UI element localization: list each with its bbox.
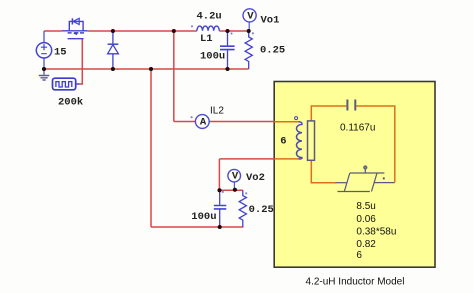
svg-text:Vo1: Vo1 bbox=[261, 14, 280, 26]
wire ammeter line y=121.5 bbox=[174, 121, 274, 123]
svg-text:0.38*58u: 0.38*58u bbox=[356, 226, 396, 237]
pulse source 200k bbox=[53, 78, 76, 90]
wire inductor-model return y=158.9 bbox=[219, 158, 274, 160]
capacitor 0.1167u (in box) bbox=[346, 100, 348, 111]
svg-text:A: A bbox=[200, 116, 207, 128]
saturable core (hysteresis symbol) bbox=[335, 169, 394, 191]
pulse source output stub bbox=[76, 83, 80, 85]
svg-text:4.2u: 4.2u bbox=[197, 10, 222, 22]
yellow subcircuit box bbox=[274, 82, 435, 268]
svg-text:L1: L1 bbox=[200, 33, 213, 45]
wire gate drive bbox=[79, 39, 82, 84]
svg-text:6: 6 bbox=[280, 135, 286, 147]
svg-text:0.25: 0.25 bbox=[249, 204, 274, 216]
resistor R2 0.25 (bottom) bbox=[239, 190, 246, 227]
wire ground-rail drop x=151 bbox=[150, 69, 152, 227]
svg-text:V: V bbox=[232, 171, 239, 183]
wire bottom rail y=69 bbox=[44, 68, 249, 70]
wire primary bottom (inside box) bbox=[274, 158, 298, 160]
probe Vo2 bbox=[228, 169, 241, 182]
svg-text:100u: 100u bbox=[191, 211, 216, 223]
svg-text:Vo2: Vo2 bbox=[246, 172, 265, 184]
svg-text:0.82: 0.82 bbox=[356, 239, 376, 250]
resistor R1 0.25 (top) bbox=[245, 31, 252, 69]
wire magnetizing loop left/top bbox=[311, 106, 395, 182]
ammeter IL2 bbox=[195, 115, 209, 129]
svg-text:6: 6 bbox=[356, 250, 362, 261]
voltage source V1 15 bbox=[43, 31, 45, 69]
svg-text:0.1167u: 0.1167u bbox=[340, 122, 375, 133]
wire core bottom stub bbox=[311, 160, 335, 182]
inductor L1 4.2u bbox=[197, 26, 219, 31]
svg-text:4.2-uH Inductor Model: 4.2-uH Inductor Model bbox=[306, 276, 405, 287]
svg-text:100u: 100u bbox=[200, 51, 225, 63]
capacitor C1 100u (top) bbox=[227, 31, 229, 69]
transistor Q1 (MOSFET with body diode) bbox=[62, 18, 88, 38]
phase dot bbox=[295, 117, 298, 120]
diode D1 bbox=[112, 31, 114, 69]
wire output bottom rail y=227 bbox=[151, 226, 244, 228]
svg-text:15: 15 bbox=[54, 47, 67, 59]
core bar bbox=[308, 121, 315, 160]
wire primary top (inside box) bbox=[274, 121, 298, 123]
wire switch-node drop x=173.8 bbox=[173, 31, 175, 122]
svg-text:200k: 200k bbox=[58, 97, 83, 109]
svg-text:8.5u: 8.5u bbox=[356, 201, 375, 212]
wire output drop x=219.4 bbox=[218, 159, 220, 190]
winding (6 turns) bbox=[296, 122, 302, 159]
svg-text:0.25: 0.25 bbox=[260, 45, 285, 57]
wire output node y=190.3 bbox=[219, 189, 242, 191]
svg-text:IL2: IL2 bbox=[210, 105, 224, 116]
bulk arrow of Q1 bbox=[73, 32, 77, 35]
wire top rail y=31 bbox=[44, 30, 249, 32]
svg-text:V: V bbox=[247, 10, 254, 22]
net marker dots bbox=[191, 25, 254, 194]
probe Vo1 bbox=[243, 9, 256, 22]
ground bbox=[43, 69, 45, 75]
capacitor C2 100u (bottom) bbox=[219, 190, 221, 227]
svg-text:0.06: 0.06 bbox=[356, 214, 376, 225]
